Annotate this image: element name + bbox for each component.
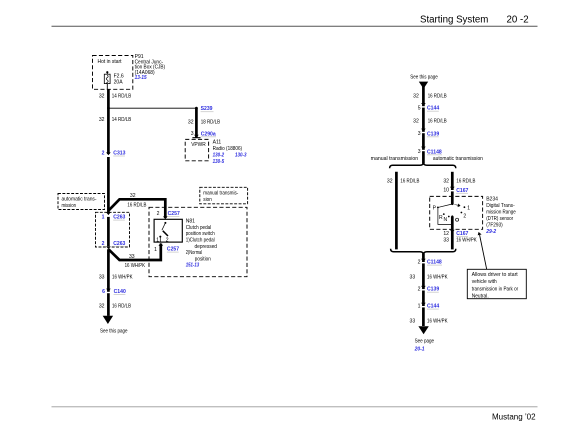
svg-text:1: 1 (102, 215, 105, 221)
svg-text:33: 33 (443, 237, 449, 243)
wire branch to clutch switch (diagonal + horizontal + down) (108, 199, 165, 218)
svg-text:(7F293): (7F293) (486, 222, 503, 228)
label 33 16 WH/PK (410, 319, 448, 325)
wire junction to C313 (107, 108, 110, 154)
radio VPWR box (dashed) (185, 139, 208, 160)
wire DTR to bracket (451, 229, 454, 249)
merge bracket bottom (391, 249, 456, 255)
svg-text:A11: A11 (213, 139, 222, 145)
svg-text:position switch: position switch (186, 231, 215, 237)
svg-text:(DTR) sensor: (DTR) sensor (486, 216, 513, 222)
svg-text:16 RD/LB: 16 RD/LB (428, 119, 448, 125)
label 33 16 WH/PK return (125, 254, 146, 269)
label manual transmission / automatic transmission (371, 156, 483, 162)
label 33 16 WH/PK (99, 275, 133, 281)
svg-text:16 RD/LB: 16 RD/LB (456, 178, 476, 184)
connector C144 pin 5 (418, 103, 440, 112)
connector C167 pin 12 (443, 230, 468, 237)
svg-text:33: 33 (410, 274, 416, 280)
svg-text:manual transmission: manual transmission (371, 156, 419, 162)
header title Starting System 20-2 (420, 14, 529, 25)
on-page arrow down (entry) (419, 82, 428, 89)
label 32 14 RD/LB (99, 117, 132, 123)
svg-text:29-2: 29-2 (485, 229, 496, 235)
svg-text:2: 2 (157, 211, 160, 217)
connector C1148 pin 3 (418, 147, 442, 156)
note pointer arrow (478, 232, 487, 269)
svg-text:13-15: 13-15 (135, 75, 147, 81)
wire automatic branch (451, 172, 454, 197)
label 32 16 RD/LB (413, 93, 447, 99)
svg-text:sion: sion (203, 197, 212, 203)
automatic transmission label box (dashed) (58, 194, 105, 210)
label 32 16 RD/LB (99, 303, 132, 309)
svg-text:2: 2 (463, 213, 466, 219)
fuse F2.6 20A (104, 71, 124, 89)
connector C263 pin 1 (102, 212, 126, 220)
svg-text:16 RD/LB: 16 RD/LB (428, 93, 448, 99)
svg-text:33: 33 (410, 319, 416, 325)
svg-text:vehicle with: vehicle with (472, 279, 497, 285)
connector C144 pin 1 (418, 303, 440, 310)
svg-text:3: 3 (191, 131, 194, 137)
svg-text:33: 33 (129, 254, 135, 260)
DTR sensor dashed box (430, 196, 483, 229)
svg-text:130-2: 130-2 (213, 152, 225, 158)
svg-text:32: 32 (443, 178, 449, 184)
svg-text:130-3: 130-3 (235, 152, 247, 158)
note box Allows driver to start (467, 269, 526, 299)
svg-text:3: 3 (418, 131, 421, 137)
wire return from clutch switch (up + horizontal + diagonal) (108, 244, 160, 260)
svg-text:32: 32 (387, 178, 393, 184)
svg-text:6: 6 (102, 289, 105, 295)
svg-text:2: 2 (166, 237, 169, 243)
label N81 Clutch pedal position switch (186, 219, 217, 269)
svg-text:16 WH/PK: 16 WH/PK (125, 263, 146, 269)
header rule (52, 25, 538, 27)
DTR switch symbol (433, 196, 471, 229)
svg-text:Digital Trans-: Digital Trans- (486, 203, 515, 209)
svg-text:Starting System: Starting System (420, 14, 488, 25)
svg-text:2: 2 (102, 151, 105, 157)
label 32 16 RD/LB (413, 119, 447, 125)
svg-text:32: 32 (413, 93, 419, 99)
switch blade (156, 222, 169, 243)
svg-text:5: 5 (418, 106, 421, 112)
connector C263 pin 2 (102, 241, 126, 251)
connector C1148 pin 2 (418, 259, 442, 266)
svg-text:16 WH/PK: 16 WH/PK (427, 274, 448, 280)
svg-text:See this page: See this page (100, 329, 128, 335)
svg-text:2)Normal: 2)Normal (186, 250, 203, 256)
label B234 DTR sensor (485, 197, 516, 235)
svg-text:32: 32 (99, 117, 105, 123)
svg-text:automatic trans-: automatic trans- (62, 196, 97, 202)
connector C139 pin 3 (418, 129, 440, 138)
svg-text:20 -2: 20 -2 (507, 14, 529, 25)
label 32 16 RD/LB branch (127, 193, 147, 209)
svg-text:VPWR: VPWR (191, 142, 206, 148)
wire bracket to arrow (422, 254, 425, 327)
svg-text:See page: See page (415, 338, 435, 344)
connector C257 pin 2 (157, 211, 180, 219)
label 32 16 RD/LB manual (387, 178, 420, 184)
svg-text:130-5: 130-5 (213, 159, 225, 165)
svg-text:Hot in start: Hot in start (98, 59, 123, 65)
manual transmission label box (dashed) (200, 187, 248, 204)
connector C140 pin 6 (102, 289, 126, 296)
svg-text:2: 2 (102, 241, 105, 247)
svg-text:B234: B234 (486, 197, 498, 203)
label 33 16 WH/PK (410, 274, 448, 280)
C263 dashed box (96, 212, 130, 247)
label A11 Radio (18806) 130-2 130-3 130-5 (213, 139, 247, 165)
svg-text:32: 32 (99, 93, 105, 99)
clutch pedal position switch N81 box (154, 219, 182, 242)
svg-text:2: 2 (418, 287, 421, 293)
svg-text:1)Clutch pedal: 1)Clutch pedal (186, 238, 215, 244)
connector C313 pin 2 (102, 151, 126, 158)
svg-text:32: 32 (99, 303, 105, 309)
wire thin to splice S239 (108, 107, 196, 109)
connector C257 pin 1 (154, 243, 179, 253)
svg-text:1: 1 (156, 237, 159, 243)
svg-text:33: 33 (99, 275, 105, 281)
label See page 20-1 (414, 338, 435, 352)
svg-text:32: 32 (188, 120, 194, 126)
junction dot (107, 107, 110, 110)
svg-text:manual transmis-: manual transmis- (203, 190, 238, 196)
svg-text:14 RD/LB: 14 RD/LB (112, 117, 132, 123)
svg-text:3: 3 (418, 149, 421, 155)
svg-text:N81: N81 (186, 219, 195, 225)
svg-text:12: 12 (443, 231, 449, 237)
footer rule (52, 406, 538, 408)
svg-text:Radio (18806): Radio (18806) (213, 146, 243, 152)
svg-text:mission Range: mission Range (486, 210, 516, 216)
connector C139 pin 2 (418, 286, 440, 293)
svg-text:10: 10 (443, 188, 449, 194)
svg-text:See this page: See this page (410, 75, 438, 81)
label P91 Central Junction Box (CJB) (14A068) 13-15 (135, 54, 166, 81)
connector C290a pin 3 (191, 131, 216, 138)
svg-text:Neutral.: Neutral. (472, 294, 489, 300)
wire C313 to split (107, 157, 110, 214)
svg-text:automatic transmission: automatic transmission (433, 156, 483, 162)
wire S239 to radio (195, 108, 198, 138)
label 32 16 RD/LB automatic (443, 178, 476, 184)
splice S239 (195, 106, 214, 112)
fuse box P91 Central Junction Box (dashed) (93, 56, 133, 90)
svg-text:depressed: depressed (195, 244, 218, 250)
wire fuse to junction S239 (107, 89, 110, 108)
svg-text:N: N (444, 217, 448, 223)
svg-text:16 WH/PK: 16 WH/PK (456, 237, 477, 243)
connector C167 pin 10 (443, 187, 468, 194)
svg-text:14 RD/LB: 14 RD/LB (112, 93, 132, 99)
svg-text:20-1: 20-1 (414, 346, 425, 352)
svg-text:151-13: 151-13 (186, 263, 200, 269)
wire manual branch (395, 172, 398, 250)
svg-text:32: 32 (130, 193, 136, 199)
off-page arrow down (103, 316, 113, 324)
svg-text:32: 32 (413, 119, 419, 125)
svg-text:R: R (439, 215, 443, 221)
wire stub to split bracket (422, 153, 425, 164)
off-page arrow down (418, 326, 428, 334)
svg-text:position: position (195, 256, 211, 262)
svg-text:16 RD/LB: 16 RD/LB (112, 303, 132, 309)
svg-text:16 RD/LB: 16 RD/LB (127, 203, 147, 209)
svg-text:mission: mission (62, 203, 77, 209)
svg-text:1: 1 (418, 304, 421, 310)
svg-text:16 WH/PK: 16 WH/PK (427, 319, 448, 325)
svg-text:16 WH/PK: 16 WH/PK (112, 275, 133, 281)
label 32 18 RD/LB (188, 120, 221, 126)
svg-text:Mustang ’02: Mustang ’02 (492, 413, 536, 422)
svg-text:2: 2 (418, 260, 421, 266)
svg-text:Clutch pedal: Clutch pedal (186, 225, 212, 231)
label 32 14 RD/LB (99, 93, 132, 99)
label 33 16 WH/PK (443, 237, 477, 243)
wire merge below C263 (107, 249, 110, 316)
svg-text:1: 1 (154, 247, 157, 253)
svg-text:P: P (433, 205, 437, 211)
manual transmission outer dashed box (149, 207, 247, 276)
split bracket top (390, 162, 456, 168)
svg-text:18 RD/LB: 18 RD/LB (201, 120, 221, 126)
wire through C263 (107, 217, 110, 246)
svg-text:transmission in Park or: transmission in Park or (472, 286, 519, 292)
svg-text:Allows driver to start: Allows driver to start (472, 272, 519, 278)
svg-text:20A: 20A (114, 79, 124, 85)
svg-text:1: 1 (467, 205, 470, 211)
wire entry to C1148 (422, 87, 425, 153)
svg-text:16 RD/LB: 16 RD/LB (400, 178, 420, 184)
